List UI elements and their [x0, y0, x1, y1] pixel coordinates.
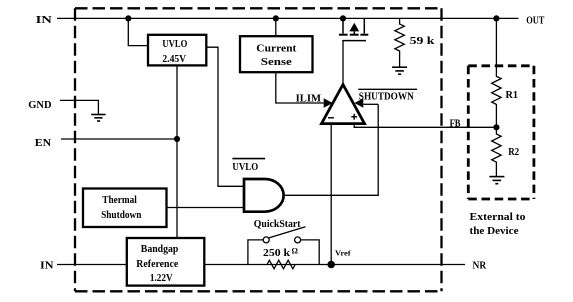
svg-text:Thermal: Thermal	[102, 195, 137, 206]
svg-text:UVLO: UVLO	[232, 162, 258, 173]
svg-text:the Device: the Device	[470, 226, 520, 237]
label External to the Device	[470, 212, 526, 237]
pin label OUT	[526, 15, 544, 26]
svg-text:NR: NR	[473, 261, 487, 272]
net label UVLO (active low)	[232, 159, 265, 173]
wire error amp output up to pass transistor gate	[342, 41, 344, 85]
wire Thermal Shutdown output to AND gate bottom input	[167, 207, 245, 209]
node junction dot at pass transistor source	[340, 15, 346, 21]
wire Bandgap output / NR net	[204, 264, 465, 266]
svg-text:GND: GND	[28, 99, 51, 111]
svg-text:OUT: OUT	[526, 15, 544, 26]
svg-text:Reference: Reference	[136, 259, 179, 270]
svg-text:Sense: Sense	[261, 57, 293, 68]
svg-text:250 k: 250 k	[263, 248, 290, 259]
ground symbol (GND pin)	[91, 115, 105, 122]
Current Sense block U5	[240, 36, 313, 72]
wire inverting input down to Vref node	[330, 124, 332, 265]
svg-text:Vref: Vref	[335, 248, 351, 257]
label QuickStart	[254, 219, 301, 230]
wire UVLO output to AND gate top input	[206, 47, 244, 186]
svg-text:SHUTDOWN: SHUTDOWN	[359, 92, 415, 103]
wire IN bottom to Bandgap Reference	[57, 264, 127, 266]
wire AND gate output to SHUTDOWN input of error amp	[284, 104, 379, 195]
node junction dot Vref	[327, 261, 335, 269]
net label Vref	[335, 248, 351, 257]
svg-text:Ω: Ω	[292, 247, 299, 256]
wire non-inverting input to FB	[354, 124, 496, 128]
svg-text:EN: EN	[35, 137, 51, 149]
Thermal Shutdown block U4	[83, 189, 167, 228]
op-amp U1 error amplifier triangle	[322, 85, 365, 124]
AND gate U2	[244, 179, 284, 212]
pin label EN	[35, 137, 51, 149]
net label ILIM	[296, 93, 322, 104]
net label SHUTDOWN (active low)	[358, 89, 417, 102]
svg-text:IN: IN	[40, 260, 54, 272]
wire from IN rail down to UVLO box	[128, 18, 148, 45]
wire SHUTDOWN arrow to AND output riser	[363, 103, 378, 105]
pin label IN (bottom)	[40, 260, 54, 272]
IC boundary dashed box	[75, 8, 442, 291]
svg-text:1.22V: 1.22V	[150, 273, 173, 284]
svg-text:R2: R2	[508, 147, 519, 158]
resistor R1	[492, 18, 518, 127]
svg-text:Shutdown: Shutdown	[101, 210, 142, 221]
wire EN	[61, 138, 177, 140]
svg-text:IN: IN	[36, 14, 52, 26]
svg-text:UVLO: UVLO	[162, 39, 187, 50]
node junction dot FB divider tap	[493, 124, 499, 130]
svg-text:59 k: 59 k	[410, 36, 435, 47]
node junction dot OUT	[493, 15, 499, 21]
pin label FB	[450, 119, 461, 130]
node junction dot at IN/UVLO tap	[125, 15, 131, 21]
pin label NR	[473, 261, 487, 272]
UVLO comparator block U3	[148, 35, 206, 66]
node junction dot EN net	[174, 136, 180, 142]
node junction dot at Current Sense tap	[273, 15, 279, 21]
transistor Q1 PMOS pass element	[339, 18, 368, 40]
svg-text:Bandgap: Bandgap	[141, 244, 179, 255]
ground symbol (R2)	[489, 177, 504, 184]
wire GND to ground	[60, 100, 98, 113]
SHUTDOWN input arrowhead	[355, 98, 364, 107]
resistor R2	[492, 127, 520, 176]
wire Current Sense output to ILIM arrow	[276, 72, 324, 103]
svg-text:External to: External to	[470, 212, 526, 223]
wire IN rail to Current Sense top	[275, 18, 277, 36]
ILIM input arrowhead	[324, 98, 333, 107]
switch QuickStart bypass	[248, 227, 319, 265]
pin label IN (top)	[36, 14, 52, 26]
svg-text:Current: Current	[256, 44, 297, 55]
resistor 59 k	[395, 18, 435, 67]
svg-text:ILIM: ILIM	[296, 93, 322, 104]
wire IN/OUT top rail	[57, 17, 519, 19]
svg-text:R1: R1	[506, 90, 519, 101]
pin label GND	[28, 99, 51, 111]
svg-text:FB: FB	[450, 119, 461, 130]
external components dashed box	[468, 66, 534, 199]
resistor 250 k	[263, 247, 299, 269]
wire UVLO box bottom down to Bandgap Reference (EN net)	[176, 65, 178, 238]
svg-text:2.45V: 2.45V	[162, 54, 186, 65]
ground symbol (59 k resistor)	[392, 67, 407, 74]
svg-text:QuickStart: QuickStart	[254, 219, 301, 230]
Bandgap Reference block U6	[127, 238, 205, 286]
